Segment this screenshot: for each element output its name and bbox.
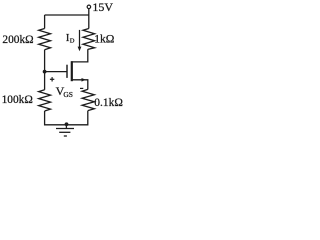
plus sign bbox=[50, 77, 54, 81]
svg-text:15V: 15V bbox=[92, 0, 113, 14]
wire left rail bottom stem bbox=[45, 111, 67, 125]
wire left rail upper stem bbox=[44, 15, 46, 29]
wire gate bbox=[45, 71, 67, 73]
resistor R1 200k zigzag bbox=[39, 29, 51, 50]
current arrow ID bbox=[78, 30, 82, 51]
wire drain link bbox=[71, 49, 88, 62]
ground bars bbox=[56, 129, 74, 137]
terminal circle 15V bbox=[87, 5, 91, 8]
ground stub bbox=[65, 125, 67, 128]
minus sign bbox=[80, 87, 83, 89]
resistor R2 100k zigzag bbox=[39, 90, 51, 111]
transistor Q1 channel bbox=[71, 61, 73, 81]
wire top rail bbox=[45, 14, 89, 16]
svg-text:1kΩ: 1kΩ bbox=[94, 33, 115, 46]
wire right bottom stem bbox=[67, 111, 88, 125]
wire 15V terminal stub bbox=[88, 9, 90, 29]
resistor R3 1k zigzag bbox=[83, 29, 95, 50]
transistor Q1 gate bar bbox=[66, 65, 68, 78]
node junction dot gate bbox=[43, 70, 47, 74]
resistor R4 0.1k zigzag bbox=[82, 89, 94, 110]
svg-text:0.1kΩ: 0.1kΩ bbox=[94, 97, 123, 109]
node junction dot ground bbox=[65, 122, 69, 126]
svg-text:GS: GS bbox=[63, 90, 73, 99]
transistor Q1 source lead bbox=[71, 80, 88, 90]
wire left rail middle bbox=[44, 50, 46, 90]
svg-text:100kΩ: 100kΩ bbox=[2, 94, 33, 106]
svg-text:D: D bbox=[70, 38, 75, 45]
svg-text:200kΩ: 200kΩ bbox=[2, 34, 33, 46]
transistor Q1 source arrowhead bbox=[82, 78, 86, 82]
